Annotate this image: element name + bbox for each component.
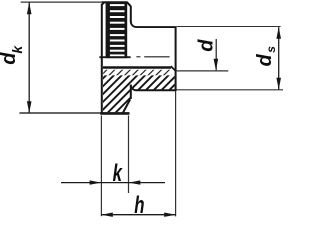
head top edge (102, 1, 127, 3)
arrow d down (214, 59, 219, 71)
fillet head to hub top (131, 22, 137, 28)
extension line bottom (d_k lower) (19, 112, 100, 114)
fine thread hatch (97, 64, 180, 80)
fillet head to hub bottom (131, 85, 137, 90)
head right face lower (section) (130, 85, 132, 99)
knurl slits (110, 4, 125, 6)
head bottom chamfer (123, 99, 130, 112)
arrow h left (101, 213, 113, 217)
arrow h right (164, 213, 176, 217)
svg-text:h: h (134, 192, 144, 219)
head top-left chamfer (102, 2, 105, 5)
arrow d_k up (27, 2, 32, 14)
hub right face (175, 26, 177, 91)
centerline solid segment (99, 56, 130, 58)
section hatch hub (123, 70, 180, 95)
d_s upper extension line (177, 26, 281, 28)
arrow d_s down (276, 78, 281, 90)
d_s dimension line (278, 27, 280, 89)
arrow k left (90, 180, 102, 184)
h extension line right lower (175, 91, 177, 216)
bore line (103, 66, 171, 69)
k dimension line (61, 182, 165, 184)
bore chamfer at face (171, 66, 175, 71)
centerline dash-dot (136, 56, 140, 58)
svg-text:k: k (9, 45, 25, 54)
knurl band (106, 2, 128, 59)
k extension line left (100, 116, 102, 217)
head right face upper (external) (130, 6, 132, 22)
arrow d_s up (276, 27, 281, 39)
svg-text:d: d (196, 39, 218, 52)
hub bottom line (136, 89, 176, 91)
head bottom edge (100, 112, 129, 115)
d_s lower extension line (177, 89, 283, 91)
d dimension line (215, 39, 217, 70)
arrow d_k down (27, 101, 32, 113)
svg-text:k: k (113, 160, 124, 187)
head top-right chamfer (127, 2, 131, 6)
extension line top (d_k upper) (21, 1, 103, 3)
head left face (101, 4, 103, 114)
dimension line d_k (28, 3, 30, 113)
svg-text:d: d (254, 54, 276, 67)
k extension line right (128, 116, 130, 194)
h dimension line (101, 214, 175, 216)
svg-text:s: s (264, 46, 278, 53)
hub top line (136, 26, 175, 28)
d extension line (thread) (177, 70, 229, 72)
section hatch head (95, 60, 140, 115)
arrow k right (129, 180, 141, 184)
